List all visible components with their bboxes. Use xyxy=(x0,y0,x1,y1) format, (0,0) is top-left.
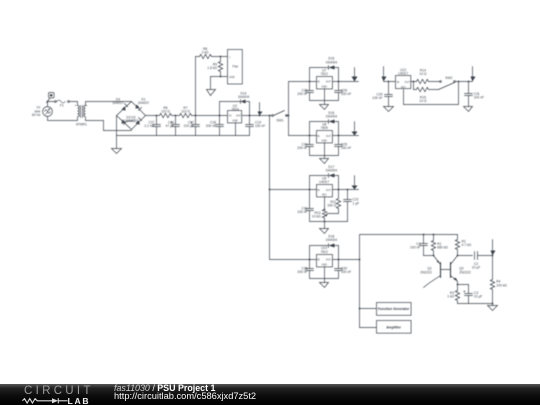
svg-text:7824: 7824 xyxy=(231,107,239,111)
voltage source V1 xyxy=(43,107,53,117)
svg-text:200 nF: 200 nF xyxy=(206,124,216,128)
C19 label xyxy=(255,120,265,128)
bridge diode D4 top-left xyxy=(122,104,128,111)
capacitor C27 xyxy=(153,116,161,136)
junction xyxy=(309,259,311,261)
svg-text:F1: F1 xyxy=(60,103,64,107)
C25 label xyxy=(341,143,351,151)
svg-text:100 nF: 100 nF xyxy=(372,96,382,100)
junction xyxy=(458,81,460,83)
C1 label xyxy=(410,242,420,250)
svg-text:60 Hz: 60 Hz xyxy=(32,113,41,117)
Q1 label xyxy=(420,267,432,275)
junction xyxy=(457,255,459,257)
svg-text:IN: IN xyxy=(317,189,320,192)
wire collector node to C2 xyxy=(458,255,473,257)
C21 label xyxy=(297,207,307,215)
wire loop U10 xyxy=(310,246,339,279)
svg-text:2N2222: 2N2222 xyxy=(459,270,471,274)
wire loop U7 xyxy=(310,68,339,101)
C27 label xyxy=(144,120,154,128)
emitter node branch xyxy=(457,284,459,286)
junction xyxy=(324,221,326,223)
SW1 label xyxy=(276,119,283,123)
junction xyxy=(433,234,435,236)
R1 label xyxy=(437,242,448,250)
capacitor C22 xyxy=(344,190,352,222)
Q2 label xyxy=(459,267,471,275)
svg-text:100 nF: 100 nF xyxy=(255,124,265,128)
C2 label xyxy=(472,262,481,270)
svg-text:OUT: OUT xyxy=(326,259,332,262)
R10 label xyxy=(312,211,321,219)
svg-text:SW1: SW1 xyxy=(276,119,283,123)
footer title text xyxy=(114,383,215,393)
XFMR1 label xyxy=(76,122,87,126)
svg-text:OUT: OUT xyxy=(236,115,242,118)
C30 label xyxy=(341,266,351,274)
svg-text:GND: GND xyxy=(322,264,328,267)
svg-text:10 µF: 10 µF xyxy=(472,266,481,270)
bridge labels xyxy=(112,98,149,124)
junction R9 top xyxy=(220,56,222,58)
ground (bridge) xyxy=(112,136,122,154)
svg-text:2.2 mF: 2.2 mF xyxy=(144,124,154,128)
svg-text:IN: IN xyxy=(317,259,320,262)
regulator U10 box xyxy=(317,255,333,267)
diode D16 xyxy=(329,120,335,124)
ground (C29) xyxy=(384,107,394,112)
bridge diode D3 bottom-left xyxy=(121,120,126,125)
resistor R14 xyxy=(417,79,429,83)
junction xyxy=(492,303,494,305)
input terminal arrow xyxy=(382,67,387,82)
C31 label xyxy=(474,92,484,100)
junction xyxy=(175,115,177,117)
junction xyxy=(309,135,311,137)
D17 label xyxy=(326,165,338,173)
svg-text:1N4004: 1N4004 xyxy=(326,238,338,242)
C23 label xyxy=(297,89,307,97)
resistor R8 xyxy=(200,54,212,58)
junction xyxy=(492,255,494,257)
transistor Q2 xyxy=(451,256,458,291)
D14 label xyxy=(238,92,250,100)
svg-text:4.7 kΩ: 4.7 kΩ xyxy=(462,243,472,247)
wire loop U9 xyxy=(310,176,348,222)
main positive wire xyxy=(146,115,272,117)
ground (U7) xyxy=(320,101,329,110)
svg-text:200 nF: 200 nF xyxy=(297,92,307,96)
regulator U9 box xyxy=(317,185,333,197)
svg-text:OUT: OUT xyxy=(326,135,332,138)
junction xyxy=(219,115,221,117)
ground (amp) xyxy=(488,304,498,311)
capacitor C26 xyxy=(335,91,343,93)
junction xyxy=(338,81,340,83)
regulator U2 7824 xyxy=(228,111,242,123)
potentiometer R10 xyxy=(322,197,327,222)
node flag icon xyxy=(47,93,55,103)
wire loop U8 xyxy=(310,122,339,156)
svg-text:680 kΩ: 680 kΩ xyxy=(437,245,448,249)
svg-text:330 Ω: 330 Ω xyxy=(327,204,336,208)
resistor R1 xyxy=(431,235,435,256)
wire fuse to transformer xyxy=(70,102,78,106)
capacitor C25 xyxy=(335,145,343,147)
regulator U8 box xyxy=(317,131,333,143)
junction xyxy=(288,115,290,117)
ground (C31) xyxy=(464,107,473,112)
diode D15 xyxy=(329,66,335,70)
wires to switch SW2 xyxy=(429,82,440,90)
D18 label xyxy=(326,235,338,243)
bus wire to LM317 and second 7812 inputs xyxy=(270,116,310,260)
R11 label xyxy=(327,200,336,208)
ground (U10) xyxy=(320,279,329,288)
svg-text:1 µF: 1 µF xyxy=(353,201,360,205)
U8 labels xyxy=(317,122,331,142)
transistor Q1 xyxy=(424,256,451,288)
F1 label xyxy=(60,103,64,107)
node: bridge minus to ground and rail xyxy=(116,116,118,136)
junction xyxy=(249,115,251,117)
capacitor C1 xyxy=(420,235,428,256)
wire secondary bottom to bridge bottom xyxy=(86,118,132,131)
junction R9 bottom xyxy=(220,76,222,78)
terminal arrow (24V out) xyxy=(258,103,263,116)
bus wire from SW1 to 7812 and 7809 inputs xyxy=(287,82,310,136)
svg-text:GND: GND xyxy=(322,86,328,89)
svg-text:100 nF: 100 nF xyxy=(341,146,351,150)
U2 labels xyxy=(229,104,242,123)
junction xyxy=(269,189,271,191)
svg-text:2N2222: 2N2222 xyxy=(420,270,432,274)
ground (U9) xyxy=(320,222,329,234)
wire U12 out node xyxy=(411,82,417,90)
resistor R9 xyxy=(218,57,222,77)
resistor R2 xyxy=(455,235,459,256)
capacitor C19 xyxy=(246,116,254,136)
junction xyxy=(309,81,311,83)
ground (U8) xyxy=(320,156,329,164)
svg-text:200 nF: 200 nF xyxy=(297,270,307,274)
regulator U12 box xyxy=(396,76,411,89)
svg-text:LM317: LM317 xyxy=(398,72,408,76)
svg-text:GND: GND xyxy=(229,76,235,79)
svg-text:7812: 7812 xyxy=(321,250,329,254)
junction xyxy=(468,81,470,83)
svg-text:10 µF: 10 µF xyxy=(474,295,483,299)
svg-text:110 Ω: 110 Ω xyxy=(161,110,170,114)
bridge diode D1 top-right xyxy=(135,105,141,111)
C24 label xyxy=(297,143,307,151)
svg-text:IN: IN xyxy=(397,81,400,84)
junction xyxy=(347,189,349,191)
transformer XFMR1 xyxy=(75,105,87,118)
svg-text:100 kΩ: 100 kΩ xyxy=(496,283,507,287)
svg-text:1N4007: 1N4007 xyxy=(127,119,139,123)
capacitor C24 xyxy=(306,145,314,147)
fan labels xyxy=(229,56,238,79)
svg-text:10 Ω: 10 Ω xyxy=(419,72,427,76)
amplifier box xyxy=(377,321,412,334)
U7 wires in/out and gnd xyxy=(310,82,359,101)
svg-text:XFMR1: XFMR1 xyxy=(76,122,87,126)
svg-text:7812: 7812 xyxy=(321,72,329,76)
resistor R3 xyxy=(455,291,459,304)
bottom rail xyxy=(117,135,250,137)
svg-text:10 kΩ: 10 kΩ xyxy=(312,215,321,219)
svg-text:IN: IN xyxy=(317,81,320,84)
U7 labels xyxy=(317,68,331,88)
R8 label xyxy=(202,47,209,55)
resistor R7 xyxy=(180,113,192,117)
svg-text:10 Ω: 10 Ω xyxy=(419,99,427,103)
capacitor C3 xyxy=(464,285,473,304)
switch SW1 xyxy=(272,111,288,117)
junction xyxy=(259,115,261,117)
R14 label xyxy=(419,69,427,77)
wire R8 to fan plus xyxy=(212,56,228,58)
C16 label xyxy=(166,120,175,128)
output terminal arrow (amp) xyxy=(491,240,496,256)
V1 value label xyxy=(32,106,41,117)
wire SW2 to output xyxy=(456,81,473,83)
junction xyxy=(388,81,390,83)
CircuitLab logo wordmark xyxy=(24,385,94,397)
svg-text:IN: IN xyxy=(229,115,232,118)
svg-text:100 nF: 100 nF xyxy=(341,270,351,274)
junction xyxy=(338,259,340,261)
svg-text:GND: GND xyxy=(232,120,238,123)
junction xyxy=(269,115,271,117)
U9 labels xyxy=(317,176,331,196)
R2 label xyxy=(462,240,472,248)
wire V1 bottom to transformer xyxy=(48,117,78,121)
footer bar xyxy=(0,384,540,405)
junction xyxy=(324,209,326,211)
svg-text:1N4007: 1N4007 xyxy=(112,101,124,105)
svg-text:1N4004: 1N4004 xyxy=(326,60,338,64)
C28 label xyxy=(297,266,307,274)
wire fan gnd row xyxy=(211,76,228,78)
capacitor C21 xyxy=(306,209,314,211)
svg-text:OUT: OUT xyxy=(326,189,332,192)
D16 label xyxy=(326,111,338,119)
C26 label xyxy=(341,89,351,97)
svg-text:1N4004: 1N4004 xyxy=(238,95,250,99)
svg-text:200 nF: 200 nF xyxy=(297,146,307,150)
svg-text:2 kΩ: 2 kΩ xyxy=(202,51,209,55)
junction xyxy=(309,189,311,191)
fan box xyxy=(228,50,243,85)
svg-text:+: + xyxy=(229,56,231,59)
wire ADJ feedback xyxy=(404,82,459,105)
svg-text:Fan: Fan xyxy=(232,65,238,69)
bridge diode D2 bottom-right xyxy=(136,118,142,125)
wire to amplifier box xyxy=(360,327,377,329)
capacitor C23 xyxy=(306,91,314,93)
R4 label xyxy=(496,280,507,288)
svg-text:110 Ω: 110 Ω xyxy=(181,110,190,114)
wire V1 top to fuse xyxy=(48,102,55,107)
svg-text:SW2: SW2 xyxy=(445,76,452,80)
C3 label xyxy=(474,291,483,299)
diode D18 xyxy=(329,244,335,248)
junction xyxy=(195,115,197,117)
svg-text:1 kΩ: 1 kΩ xyxy=(447,295,454,299)
logo circuit doodle xyxy=(18,396,74,405)
terminal arrow (12V) xyxy=(352,68,358,82)
wire riser to fan circuit xyxy=(196,57,200,116)
capacitor C29 xyxy=(385,82,393,107)
fuse F1 xyxy=(55,100,70,103)
U8 wires in/out and gnd xyxy=(310,136,359,156)
U10 wires in/out and gnd xyxy=(310,260,360,279)
footer url text xyxy=(114,391,256,401)
junction xyxy=(413,81,415,83)
resistor R4 xyxy=(490,256,494,304)
wire secondary top to bridge top xyxy=(86,102,132,106)
junction main wire taps xyxy=(156,115,158,117)
diode D14 xyxy=(241,100,246,104)
svg-text:100 nF: 100 nF xyxy=(297,210,307,214)
R3 label xyxy=(447,291,454,299)
svg-text:47 µF: 47 µF xyxy=(166,124,175,128)
U2 protection loop wire xyxy=(220,102,250,116)
resistor R15 xyxy=(417,87,429,91)
svg-text:ADJ: ADJ xyxy=(401,86,406,89)
wire input to U12 xyxy=(384,81,396,83)
U12 labels xyxy=(397,68,411,89)
SW2 label xyxy=(445,76,452,80)
terminal arrow (9V) xyxy=(352,122,358,136)
svg-text:100 nF: 100 nF xyxy=(474,96,484,100)
wire to function generator box xyxy=(360,308,377,310)
wire emitter bottom rail xyxy=(458,303,493,305)
R6 label xyxy=(161,106,170,114)
junction xyxy=(359,259,361,261)
svg-text:OUT: OUT xyxy=(405,81,411,84)
resistor R11 xyxy=(328,190,341,214)
svg-text:1.8 kΩ: 1.8 kΩ xyxy=(207,66,217,70)
svg-text:1N4007: 1N4007 xyxy=(138,101,150,105)
junction xyxy=(423,234,425,236)
R15 label xyxy=(419,96,427,104)
capacitor C17 xyxy=(191,116,200,136)
ground (fan) xyxy=(207,77,216,96)
capacitor C31 xyxy=(465,82,473,107)
C17 label xyxy=(184,120,194,128)
svg-text:1N4004: 1N4004 xyxy=(326,168,338,172)
capacitor C28 xyxy=(306,269,314,271)
wire amp feed riser xyxy=(360,235,458,328)
svg-text:Function Generator: Function Generator xyxy=(378,307,410,311)
C22 label xyxy=(353,198,360,206)
U10 labels xyxy=(317,246,331,266)
diode bridge frame xyxy=(117,102,146,130)
svg-text:Amplifier: Amplifier xyxy=(386,326,401,330)
capacitor C30 xyxy=(335,269,343,271)
switch SW2 xyxy=(439,81,456,90)
capacitor C18 xyxy=(216,116,224,136)
svg-text:100 nF: 100 nF xyxy=(341,92,351,96)
regulator U7 box xyxy=(317,77,333,89)
C18 label xyxy=(206,120,216,128)
svg-text:7809: 7809 xyxy=(321,126,329,130)
diode D17 xyxy=(329,174,335,178)
function generator box xyxy=(377,303,412,316)
svg-text:220 µF: 220 µF xyxy=(184,124,194,128)
junction xyxy=(338,135,340,137)
svg-text:OUT: OUT xyxy=(326,81,332,84)
R9 label xyxy=(207,63,217,71)
junction xyxy=(433,255,435,257)
U2 gnd pin wire xyxy=(235,123,237,136)
resistor R6 xyxy=(160,113,172,117)
R7 label xyxy=(181,106,190,114)
terminal arrow (variable out) xyxy=(352,176,358,190)
svg-text:1N4004: 1N4004 xyxy=(326,114,338,118)
C29 label xyxy=(372,92,382,100)
svg-text:IN: IN xyxy=(317,135,320,138)
wire C1/R1 node xyxy=(424,255,434,257)
U9 wires in/out xyxy=(310,189,359,191)
junction xyxy=(359,308,361,310)
svg-text:100 nF: 100 nF xyxy=(410,245,420,249)
capacitor C16 xyxy=(171,116,180,136)
output terminal arrow xyxy=(471,67,476,82)
junction xyxy=(338,189,340,191)
D15 label xyxy=(326,57,338,65)
capacitor C2 xyxy=(475,252,493,260)
svg-text:LM317: LM317 xyxy=(319,180,329,184)
